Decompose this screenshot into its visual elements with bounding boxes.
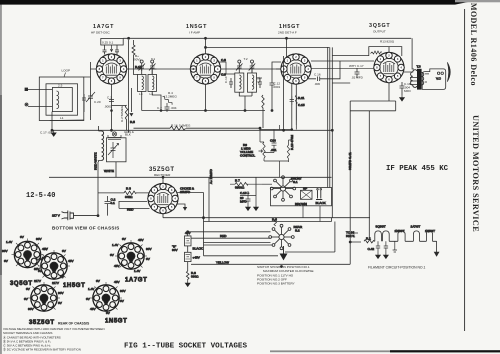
svg-text:5.6MEG: 5.6MEG (179, 124, 191, 128)
power plug (62, 211, 99, 221)
capacitor C.1 on loop right (82, 94, 86, 112)
T1 L4 winding (152, 76, 154, 90)
svg-text:T.2: T.2 (244, 57, 248, 61)
battery B1 45V (185, 236, 192, 246)
wire x256 drop (255, 177, 257, 195)
svg-text:117V: 117V (34, 279, 42, 283)
T3 lead arrows left (410, 78, 417, 85)
svg-text:R.2 56MEG: R.2 56MEG (120, 105, 124, 122)
vertical bundle x327.7 (327, 47, 329, 187)
antenna terminal A (25, 88, 28, 91)
svg-text:+45V: +45V (193, 256, 201, 260)
svg-text:90V: 90V (58, 291, 64, 295)
svg-text:FILAMENT CIRCUIT-POSITION NO.1: FILAMENT CIRCUIT-POSITION NO.1 (368, 266, 426, 270)
wire T1 bottoms (142, 71, 161, 111)
ground bracket (393, 241, 397, 252)
T2 trimmers (236, 63, 243, 73)
wire YELLOW (191, 263, 350, 265)
svg-text:REAR OF CHASSIS: REAR OF CHASSIS (58, 321, 90, 325)
svg-text:C.16: C.16 (314, 73, 321, 77)
ground R.8 (185, 281, 190, 287)
svg-text:BLK: BLK (125, 133, 132, 137)
box under 3Q5 (350, 101, 396, 264)
variable capacitor C.22 (108, 142, 119, 158)
svg-text:345Ω: 345Ω (125, 195, 133, 199)
speaker cone crescent (447, 62, 450, 81)
svg-text:BLACK: BLACK (316, 201, 327, 205)
svg-text:L4: L4 (150, 92, 154, 96)
resistor R.10 vertical (287, 140, 289, 162)
bottom-right rule (270, 350, 500, 352)
svg-text:BOTTOM VIEW OF CHASSIS: BOTTOM VIEW OF CHASSIS (52, 226, 120, 231)
junction (291, 129, 293, 131)
resistor R vertical at 263 (262, 95, 264, 128)
IF transformer T2 box L7 (248, 73, 257, 92)
wire V3 right center (311, 67, 374, 69)
svg-text:IF PEAK 455 KC: IF PEAK 455 KC (386, 165, 449, 173)
antenna terminal G (25, 103, 28, 106)
wire S.2 vertical from switch down (204, 231, 271, 233)
socket view 1A7GT (115, 240, 147, 269)
capacitor C.13 (246, 191, 251, 205)
filament cap 1 to ground (376, 241, 380, 252)
svg-text:45V: 45V (68, 259, 74, 263)
wire terminal G to loop (28, 106, 52, 108)
loop winding coil (57, 91, 59, 109)
oscillator coil L5 (102, 131, 104, 160)
wire top bus to T3 (411, 37, 413, 39)
svg-text:1H5GT: 1H5GT (279, 24, 300, 30)
svg-text:90V: 90V (2, 249, 8, 253)
wire speaker socket leads (303, 206, 320, 222)
svg-text:1.4V: 1.4V (6, 240, 13, 244)
arrow junction (184, 207, 187, 210)
svg-text:R.14: R.14 (135, 65, 142, 69)
wire long bus y132.6 (52, 129, 333, 131)
vertical bundle x329.8 (329, 47, 331, 187)
vertical bundle x332.3 (331, 47, 333, 218)
wire y221.5 (204, 218, 332, 222)
ground arrow S.2 (280, 246, 286, 260)
capacitor C.17 .02 (355, 68, 360, 78)
svg-text:S.2: S.2 (295, 229, 300, 233)
svg-text:3Q5GT: 3Q5GT (369, 23, 390, 29)
wire y192.9 into 35Z5 (98, 192, 149, 194)
wire 35Z5 bottom (162, 213, 164, 218)
capacitor C.14 (272, 130, 277, 153)
svg-text:MODEL R1406 Delco: MODEL R1406 Delco (469, 3, 478, 86)
wire x209 drop (208, 177, 210, 221)
svg-text:RED-WHITE: RED-WHITE (94, 152, 98, 170)
filament 3Q5 hump pair (375, 231, 389, 241)
svg-text:.006: .006 (314, 82, 320, 86)
wire T1 primary top (138, 69, 142, 75)
svg-text:OUTPUT: OUTPUT (373, 30, 386, 34)
resistor R.6 above S.2 (274, 218, 277, 227)
svg-text:FIG 1--TUBE SOCKET VOLTAGES: FIG 1--TUBE SOCKET VOLTAGES (124, 342, 247, 350)
svg-text:R.10 470M: R.10 470M (290, 134, 294, 150)
filament 1N5 hump (398, 231, 405, 241)
svg-text:1A7GT: 1A7GT (93, 24, 114, 30)
svg-text:R.16: R.16 (171, 124, 178, 128)
svg-text:HF DET-OSC: HF DET-OSC (91, 31, 111, 35)
svg-text:R.5: R.5 (130, 120, 135, 124)
speaker socket box (271, 188, 332, 206)
svg-text:V.C: V.C (436, 76, 442, 80)
tube V2 1N5GT (190, 54, 221, 85)
arrow into V1 top (110, 45, 113, 52)
speaker terminals (437, 72, 439, 74)
svg-text:I F AMP: I F AMP (189, 31, 200, 35)
T3 secondary bumps (422, 72, 424, 85)
T2 trimmer tops (238, 60, 241, 63)
svg-text:C.7: C.7 (157, 106, 162, 110)
loop antenna inner frame (46, 84, 78, 115)
ground right (254, 205, 259, 211)
notes voltage measurement (3, 327, 105, 352)
C.2 tie to plug line (107, 207, 109, 216)
left border strip (0, 4, 2, 354)
resistor R.7 (230, 182, 262, 186)
svg-text:1.4V: 1.4V (134, 269, 141, 273)
wire V3 left pins (272, 62, 281, 69)
svg-text:RED: RED (127, 208, 134, 212)
filament end drop (436, 241, 438, 256)
svg-text:117V: 117V (52, 281, 60, 285)
svg-text:C.13 +: C.13 + (240, 191, 249, 195)
volume control R.9 (259, 128, 266, 161)
wire into S.1 (262, 183, 272, 185)
svg-text:R.11: R.11 (298, 96, 305, 100)
svg-text:1.4V: 1.4V (112, 243, 119, 247)
long vertical from V3 grid (283, 56, 285, 130)
wire to S.2 mid (204, 242, 271, 244)
notes switch positions (257, 265, 314, 286)
svg-text:117 V: 117 V (52, 214, 61, 218)
top border black bar (0, 0, 468, 5)
wire terminal A to loop (28, 88, 53, 90)
svg-text:2ND DET-A F: 2ND DET-A F (278, 31, 297, 35)
capacitor C.2 (105, 196, 111, 207)
wire V3 pins to switch box (280, 125, 297, 130)
wire T2 secondary to V3 (252, 69, 262, 78)
filament cap 2 to ground (384, 241, 388, 252)
wire V1 pin5 down (130, 88, 132, 112)
T2 L6 winding (239, 75, 241, 89)
svg-text:R13 820Ω: R13 820Ω (380, 40, 395, 44)
resistor R.8 (186, 271, 189, 280)
wire 35Z5 right pins (178, 193, 204, 218)
svg-text:R 7: R 7 (235, 179, 240, 183)
wire B- long y217.7 (163, 217, 370, 219)
wire battery top to switch (188, 218, 204, 256)
svg-text:C.11: C.11 (257, 76, 261, 83)
svg-text:UNITED MOTORS SERVICE: UNITED MOTORS SERVICE (471, 115, 480, 232)
top grid cap box above V1 (101, 39, 123, 46)
capacitor C.12 (270, 69, 275, 111)
svg-text:.0001: .0001 (273, 85, 281, 89)
capacitor C.11 (258, 78, 262, 88)
socket view 3Q5GT (12, 239, 44, 268)
wire 3Q5 plate to T3 (404, 38, 414, 72)
battery B2 45V (185, 252, 192, 261)
wire RED row into 35Z5 (119, 201, 150, 208)
wire V1 left pins (91, 62, 97, 77)
svg-text:(90V): (90V) (133, 58, 141, 62)
wire T1 secondary top to V2 (152, 69, 196, 75)
svg-text:BROWN: BROWN (295, 202, 307, 206)
svg-text:T.3: T.3 (417, 65, 421, 69)
IF transformer T1 box L4 (148, 75, 157, 92)
svg-text:R.6: R.6 (272, 218, 277, 222)
socket voltage labels 1N5GT (86, 279, 126, 315)
tube V4 3Q5GT (374, 52, 405, 83)
svg-text:L1: L1 (60, 116, 64, 120)
plug prongs (316, 191, 322, 200)
wire H1b second bus (206, 46, 330, 48)
svg-text:RECT.: RECT. (346, 234, 355, 238)
svg-text:C.8: C.8 (221, 58, 226, 62)
svg-text:.004: .004 (171, 106, 177, 110)
top border gray tail (455, 0, 500, 2)
tube V1 1A7GT (96, 54, 127, 85)
svg-text:.0001: .0001 (104, 105, 112, 109)
filament 1A7 hump (413, 231, 419, 241)
svg-text:MFD: MFD (240, 200, 247, 204)
svg-text:90V: 90V (172, 248, 178, 252)
junction dots (111, 110, 113, 112)
wire V3 bottom pins down (292, 83, 297, 130)
output transformer T3 core (417, 69, 422, 90)
wire V1 right to V2 left (127, 68, 191, 70)
wire V2 top (206, 38, 287, 57)
ground filament cap2 (384, 253, 389, 259)
svg-text:30MFD C.41: 30MFD C.41 (348, 152, 352, 170)
svg-text:CONTROL: CONTROL (240, 154, 255, 158)
svg-text:YELLOW: YELLOW (216, 260, 229, 264)
wire to S.2 arrow row (204, 255, 279, 257)
svg-text:MFD: MFD (404, 89, 411, 93)
svg-text:1N5GT: 1N5GT (395, 229, 405, 233)
capacitor C.16 (318, 77, 326, 82)
svg-text:Ⓓ DC VOLTAGE WITH RECEIVER IN: Ⓓ DC VOLTAGE WITH RECEIVER IN BATTERY PO… (3, 347, 81, 352)
svg-text:RED: RED (220, 234, 227, 238)
socket voltage labels 35Z5GT (24, 279, 64, 311)
loop winding (52, 88, 72, 112)
svg-text:C.42: C.42 (368, 247, 375, 251)
loop antenna L1 outer (39, 77, 84, 121)
wire 3Q5 top (388, 47, 390, 53)
wire gang box bottom drop (115, 162, 117, 178)
svg-text:C.10: C.10 (224, 76, 228, 83)
svg-text:WHITE: WHITE (104, 169, 114, 173)
resistor R.1 filament dropper (364, 240, 374, 243)
socket voltage labels 1A7GT (110, 237, 152, 273)
wire V2 right upper to T2 (218, 62, 235, 74)
resistor R.2 vertical (125, 105, 127, 130)
svg-text:POSITION NO.3 BATTERY: POSITION NO.3 BATTERY (257, 282, 295, 286)
svg-text:1N5GT: 1N5GT (186, 24, 207, 30)
socket view 1N5GT (90, 282, 122, 311)
filament chain wire (375, 240, 437, 242)
svg-text:45V: 45V (114, 264, 120, 268)
svg-text:SOCKET TERMINALS AND CHASSIS: SOCKET TERMINALS AND CHASSIS (3, 331, 52, 335)
svg-text:C.15: C.15 (298, 103, 305, 107)
svg-text:R.1: R.1 (366, 236, 371, 240)
wire into 3Q5 box (332, 55, 369, 57)
rotary switch S.2 (269, 224, 294, 249)
svg-text:45V: 45V (138, 238, 144, 242)
svg-text:C.3: C.3 (107, 95, 112, 99)
tuning gang box C.22 (107, 138, 127, 162)
wire V2 right to V3 (221, 68, 282, 70)
rotary switch S.1 (270, 176, 295, 201)
svg-text:1A7GT: 1A7GT (411, 225, 421, 229)
svg-text:A+ 25MFD: A+ 25MFD (209, 168, 213, 184)
filament 1H5 hump (426, 231, 432, 241)
battery wires (187, 231, 189, 271)
capacitor C.20 (88, 77, 93, 120)
svg-text:MAXIMUM COUNTER CLOCKWISE: MAXIMUM COUNTER CLOCKWISE (263, 269, 314, 273)
svg-text:25MFD: 25MFD (180, 190, 191, 194)
osc coil leads (99, 126, 102, 162)
wire to S.2 row2 (204, 244, 273, 246)
wire R.16 row (134, 127, 260, 129)
svg-text:2.5: 2.5 (58, 84, 63, 88)
wire 35Z5 top (162, 177, 164, 184)
svg-text:1.4V: 1.4V (88, 287, 95, 291)
svg-text:90V: 90V (146, 247, 152, 251)
wire corner x334.9 (285, 222, 335, 253)
wire V3 to 3Q5 grid row (311, 60, 374, 62)
svg-text:.02 MFD: .02 MFD (351, 76, 364, 80)
wire top bus B+ (123, 37, 411, 39)
resistor R13 box (369, 47, 402, 56)
svg-text:3900Ω: 3900Ω (235, 185, 245, 189)
ground filament cap1 (376, 253, 381, 259)
resistor R.16 (170, 126, 186, 130)
resistor B+ dropper (132, 45, 138, 75)
svg-text:C.20: C.20 (94, 100, 101, 104)
wire V1 bottom to bus (111, 84, 113, 130)
T2 L7 winding (252, 75, 254, 89)
svg-text:1A7GT: 1A7GT (125, 278, 147, 284)
cap symbols in box (103, 45, 107, 55)
wires near C.34 (240, 196, 256, 205)
socket view 1H5GT (38, 250, 70, 279)
wire bus left drop (129, 40, 134, 133)
svg-text:C.17⋅.05: C.17⋅.05 (40, 131, 52, 135)
wire V2 bottom (205, 84, 207, 111)
svg-text:390Ω: 390Ω (191, 275, 199, 279)
wire 3Q5 cathode to bus (332, 82, 350, 84)
socket voltage labels 1H5GT (36, 247, 74, 279)
speaker frame (422, 69, 446, 90)
socket view 35Z5GT (28, 282, 60, 311)
socket transformer box (301, 190, 313, 199)
ground arrow V1 (129, 113, 133, 116)
capacitor C.3 (109, 100, 114, 102)
svg-text:1.4V: 1.4V (36, 257, 43, 261)
capacitor C.18 (400, 82, 405, 95)
wire x98 down to plug line (97, 162, 99, 216)
svg-text:S.1: S.1 (293, 180, 298, 184)
svg-text:90V: 90V (36, 237, 42, 241)
svg-text:LOOP: LOOP (62, 69, 71, 73)
svg-text:90V: 90V (120, 289, 126, 293)
svg-text:BLACK: BLACK (193, 247, 204, 251)
ground C.18 (400, 95, 405, 101)
wire mid bus y110.5 (142, 110, 265, 112)
wire 3Q5 bottom (388, 83, 390, 102)
svg-text:45V: 45V (114, 280, 120, 284)
svg-text:45V: 45V (90, 307, 96, 311)
svg-text:C14: C14 (270, 139, 276, 143)
svg-text:12-5-40: 12-5-40 (26, 192, 55, 200)
tube V3 1H5GT (281, 54, 312, 85)
socket voltage labels 3Q5GT (2, 235, 48, 271)
wire chassis line y177.3 (49, 176, 332, 178)
trimmer arrow C.20 (86, 92, 95, 102)
IF transformer T1 box L3 (138, 75, 147, 92)
wire branch to R.2 (112, 105, 127, 107)
right border line (464, 9, 466, 331)
svg-text:3Q5GT: 3Q5GT (376, 225, 386, 229)
resistor R.3 (124, 191, 136, 195)
wire loop right top (50, 77, 91, 121)
svg-text:2.2MEG: 2.2MEG (166, 95, 178, 99)
T1 trimmers (139, 63, 146, 71)
svg-text:0.25 0.1: 0.25 0.1 (102, 41, 113, 45)
svg-text:SP: SP (303, 186, 307, 190)
wire loop bottom to bus (51, 112, 53, 131)
svg-text:1N5GT: 1N5GT (425, 229, 435, 233)
svg-text:0.1: 0.1 (111, 201, 116, 205)
capacitor C.7 .004 (165, 103, 170, 112)
svg-text:35Z5GT: 35Z5GT (29, 320, 55, 326)
wire V3 to C.16 row (308, 61, 340, 79)
wires volume area (260, 130, 292, 178)
svg-text:C.9: C.9 (221, 73, 226, 77)
resistor R13 zigzag (371, 51, 383, 54)
wire TO HI RECT (350, 233, 361, 242)
wire T2 bottoms (239, 92, 252, 110)
svg-text:90V: 90V (28, 307, 34, 311)
svg-text:WHY C.17: WHY C.17 (349, 64, 364, 68)
filament end arrow (434, 252, 438, 256)
ground C.34 (246, 205, 251, 211)
resistor R.4 (162, 96, 173, 106)
svg-text:R 3: R 3 (126, 187, 131, 191)
trimmer osc adj (108, 132, 121, 140)
svg-text:L3: L3 (139, 92, 143, 96)
resistor R.11 vertical (295, 95, 297, 120)
tube V5 35Z5GT (148, 183, 179, 214)
svg-text:T.1: T.1 (151, 57, 155, 61)
T3 primary bumps (411, 70, 417, 88)
capacitor C.15 (290, 96, 294, 105)
capacitor C.10 (229, 78, 233, 88)
T1 trimmer tops (140, 60, 143, 63)
svg-text:1N5GT: 1N5GT (105, 319, 127, 325)
IF transformer T2 box L6 (235, 73, 244, 92)
svg-text:.001: .001 (271, 148, 277, 152)
ground below loop (51, 130, 56, 136)
wire RED to S.2 (191, 237, 271, 239)
T1 L3 winding (142, 76, 144, 90)
wire T3 sec to speaker (425, 74, 429, 82)
svg-text:1H5GT: 1H5GT (63, 283, 85, 289)
